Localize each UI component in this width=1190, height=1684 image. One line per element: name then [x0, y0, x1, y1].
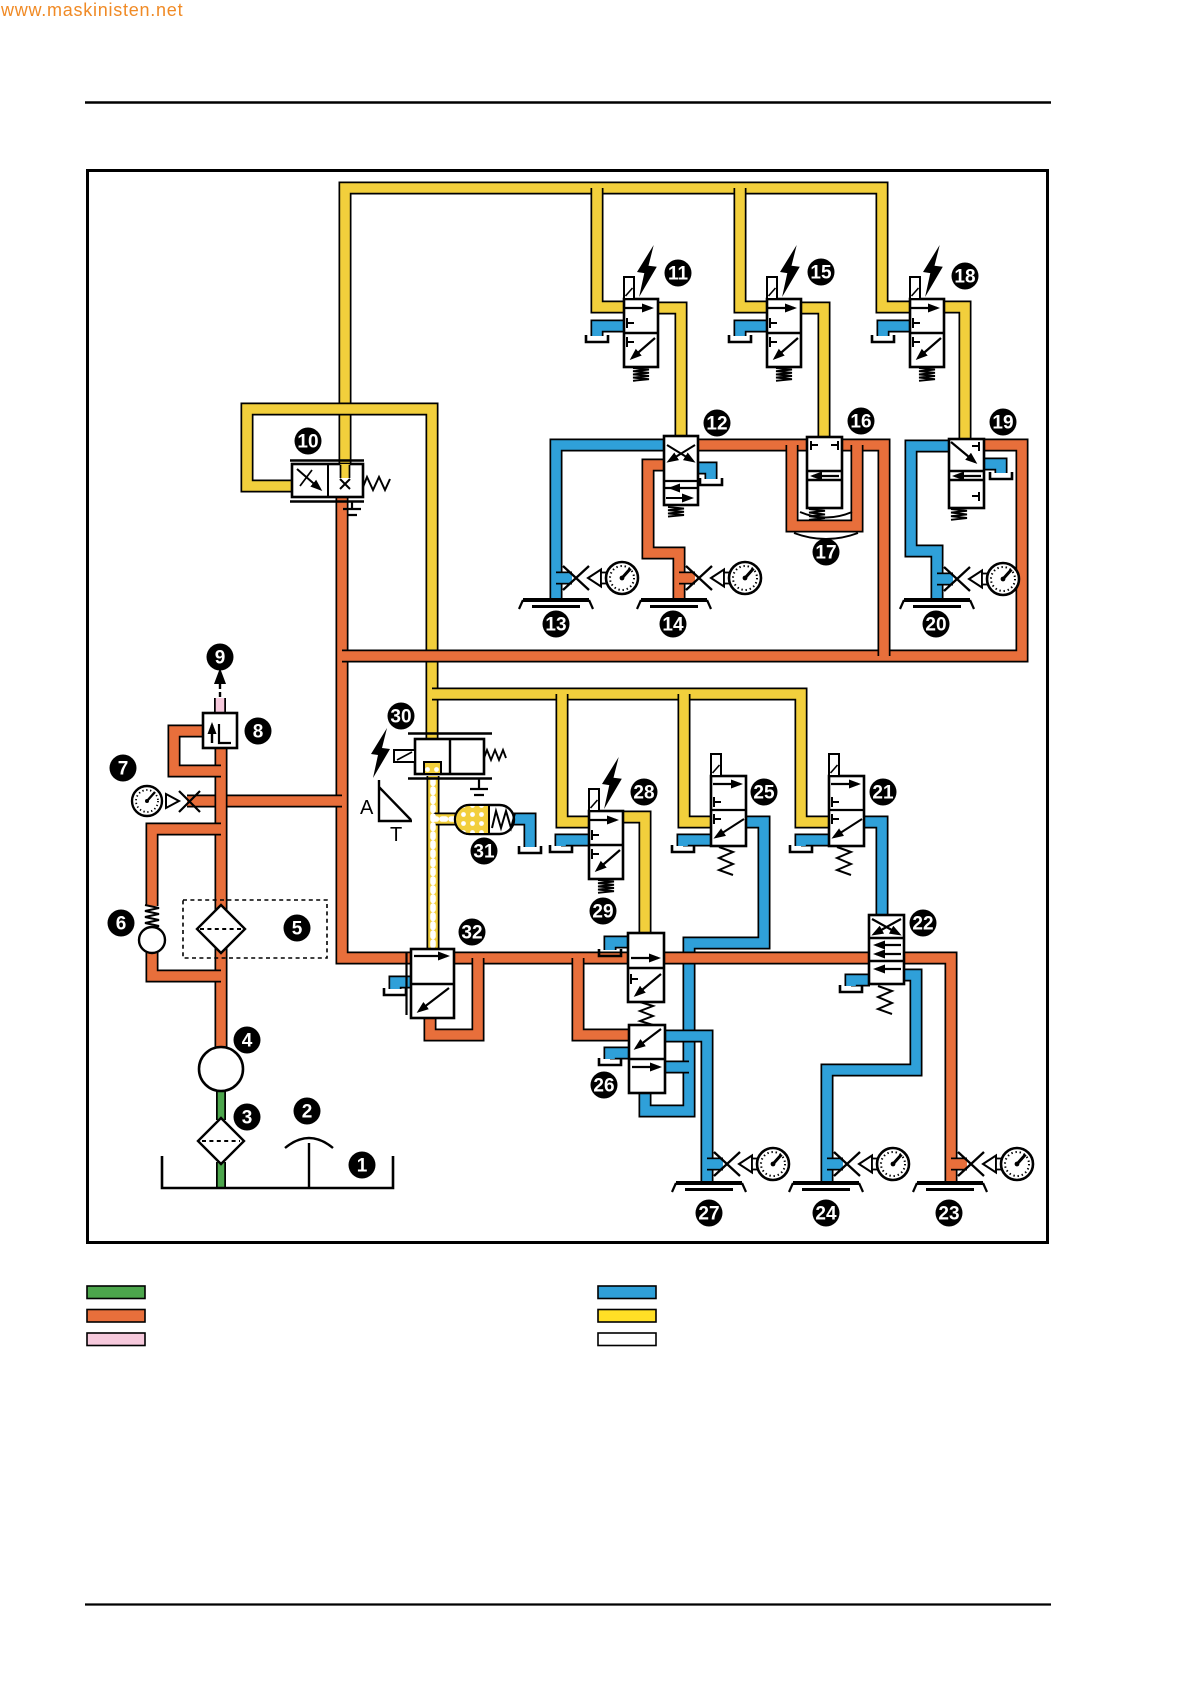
label circle 19: [990, 409, 1017, 436]
wire blue accumulator drain: [513, 819, 530, 847]
label circle 6: [108, 910, 135, 937]
valve 11 solenoid bolt: [637, 245, 657, 297]
svg-text:16: 16: [850, 412, 871, 433]
tank symbol tank 20: [900, 600, 974, 609]
svg-text:T: T: [390, 824, 402, 846]
wire orange lower bus to tank 23: [903, 958, 951, 1183]
label circle 20: [923, 611, 950, 638]
wire blue stub gauge 27: [707, 1158, 723, 1171]
valve 26 internals: [636, 1029, 661, 1048]
gauge 7 check triangle: [166, 794, 179, 808]
valve 30 spring: [484, 750, 506, 760]
valve body valve 21: [829, 776, 864, 846]
svg-text:18: 18: [954, 267, 975, 288]
pilot triangle A/T: [379, 780, 412, 821]
drain bracket valve26: [599, 1058, 621, 1065]
svg-text:19: 19: [992, 413, 1013, 434]
label circle 2: [294, 1098, 321, 1125]
drain bracket valve29: [599, 949, 621, 956]
valve body valve 30: [415, 739, 484, 774]
spring valve 16 spring: [809, 509, 825, 520]
svg-text:12: 12: [706, 414, 727, 435]
drain bracket valve15: [729, 335, 751, 342]
pilot line white dots overlay: [433, 780, 455, 950]
spring valve 12 spring: [668, 507, 684, 517]
valve body valve 18: [910, 299, 944, 367]
pilot box valve 18: [910, 277, 920, 299]
svg-text:1: 1: [357, 1156, 368, 1177]
wire blue drain valve 15: [740, 326, 768, 336]
wire blue drain valve 25: [683, 840, 712, 846]
pilot box valve 21: [829, 754, 839, 776]
label circle 26: [591, 1072, 618, 1099]
accumulator 31: [455, 805, 515, 834]
drain bracket valve12 right: [700, 478, 722, 485]
wire blue valve12 line to tank 13: [556, 445, 665, 600]
drain bracket valve32: [384, 988, 406, 995]
valve 28 internals: [589, 844, 623, 846]
pump 4: [199, 1047, 243, 1091]
wire blue drain valve 11: [597, 326, 625, 336]
valve 19 internals: [972, 442, 979, 451]
tank symbol tank 13: [519, 600, 593, 609]
wire orange stub gauge 23: [951, 1158, 967, 1171]
wire orange upper bus from valve12 + drop: [697, 445, 884, 656]
label circle 22: [910, 910, 937, 937]
valve body valve 12: [664, 436, 698, 505]
wire pink vent pipe: [214, 698, 226, 714]
svg-text:A: A: [360, 797, 374, 819]
valve 18 solenoid bolt: [923, 245, 943, 297]
pilot box valve 15: [767, 277, 777, 299]
wire blue valve25 out down to valve26 loop: [645, 822, 764, 1111]
valve body valve 10: [292, 464, 363, 497]
svg-text:13: 13: [545, 615, 566, 636]
wire blue stub valve26 lower right: [664, 1061, 689, 1074]
gauge gauge 24: [834, 1148, 909, 1180]
drain bracket accumulator: [519, 846, 541, 853]
svg-text:21: 21: [872, 783, 894, 804]
label circle 25: [751, 779, 778, 806]
tank symbol tank 24: [789, 1183, 863, 1192]
drain bracket valve22: [840, 985, 862, 992]
drain bracket valve19 right: [990, 472, 1012, 479]
label circle 16: [848, 408, 875, 435]
label circle 13: [543, 611, 570, 638]
valve 28 solenoid bolt: [602, 757, 622, 809]
spring valve 18 spring: [919, 368, 935, 381]
valve 11 internals: [624, 332, 658, 334]
wire blue drain valve 32: [395, 982, 412, 989]
svg-text:10: 10: [297, 432, 318, 453]
filter unit 5 dashed box: [183, 900, 327, 958]
valve 32 left rail: [405, 952, 407, 1015]
svg-text:11: 11: [668, 264, 689, 285]
tank 1 reservoir: [162, 1156, 393, 1188]
label circle 14: [660, 611, 687, 638]
gauge gauge 23: [958, 1148, 1033, 1180]
label circle 21: [870, 779, 897, 806]
valve 30 rails: [408, 734, 492, 779]
wire blue drain valve19 right: [983, 464, 1001, 473]
label circle 31: [471, 838, 498, 865]
spring valve 28 spring: [598, 880, 614, 893]
valve body valve 16: [807, 437, 842, 508]
label circle 3: [234, 1104, 261, 1131]
wire orange valve32 loop: [430, 958, 478, 1035]
label circle 1: [349, 1152, 376, 1179]
valve 10 yellow stub into right cell: [340, 464, 350, 478]
spring between 29 and 26: [640, 1002, 653, 1025]
svg-text:7: 7: [118, 759, 129, 780]
vent 9 arrow: [219, 681, 221, 697]
pilot box valve 28: [589, 789, 599, 811]
pilot box valve 11: [624, 277, 634, 299]
wire yellow drop to valve 11: [597, 188, 625, 307]
valve 30 solenoid bolt: [371, 728, 390, 778]
drain bracket valve25: [672, 845, 694, 852]
wire blue stub gauge 13: [556, 572, 572, 585]
svg-text:26: 26: [593, 1076, 614, 1097]
svg-text:24: 24: [815, 1204, 837, 1225]
label circle 4: [234, 1027, 261, 1054]
wire blue valve19 line to tank 20: [911, 446, 950, 600]
valve 16 internals: [811, 441, 838, 450]
valve 10 rails: [290, 461, 364, 502]
svg-text:3: 3: [242, 1108, 253, 1129]
wire orange ring horizontal + right riser to valve19: [342, 445, 1022, 656]
wire yellow drop to valve 28: [562, 694, 590, 822]
suction filter 3: [198, 1118, 244, 1164]
wire blue valve22 out to tank 24: [827, 975, 916, 1183]
wire yellow branch down to valve 30: [345, 409, 432, 740]
valve 18 internals: [910, 332, 944, 334]
label circle 7: [110, 755, 137, 782]
valve body valve 19: [949, 439, 984, 508]
svg-text:32: 32: [461, 923, 482, 944]
wire blue stub gauge 20: [937, 573, 953, 586]
svg-text:8: 8: [253, 722, 264, 743]
valve 10 internals: [327, 464, 329, 497]
valve 8 internals: [219, 724, 231, 743]
svg-text:5: 5: [292, 919, 303, 940]
breather 2: [308, 1143, 310, 1187]
svg-text:23: 23: [938, 1204, 959, 1225]
wire orange branch to relief 6: [152, 829, 221, 906]
valve 10 drain: [343, 501, 361, 515]
relief valve 6 ball: [139, 927, 165, 953]
valve body valve 22: [869, 915, 904, 984]
label circle 29: [590, 898, 617, 925]
valve 29 internals: [631, 957, 658, 959]
drain bracket valve21: [790, 845, 812, 852]
valve body valve 15: [767, 299, 801, 367]
valve body valve 26: [629, 1025, 665, 1093]
valve 10 spring: [363, 477, 390, 490]
legend blue bar: [598, 1286, 656, 1299]
wire yellow valve11 out to valve12: [657, 308, 681, 437]
valve 15 internals: [767, 332, 801, 334]
tank symbol tank 27: [672, 1183, 746, 1192]
label circle 5: [284, 915, 311, 942]
valve body valve 11: [624, 299, 658, 367]
label circle 18: [952, 263, 979, 290]
label circle 10: [295, 428, 322, 455]
svg-text:29: 29: [592, 902, 613, 923]
valve 30 drain: [470, 778, 488, 795]
wire orange box8 bypass loop: [174, 731, 221, 771]
wire yellow supply: main vertical + top bus + valve18 feed: [345, 188, 911, 480]
svg-text:25: 25: [753, 783, 775, 804]
label circle 11: [665, 260, 692, 287]
wire yellow drop to valve 15: [740, 188, 768, 307]
drain bracket valve11: [586, 335, 608, 342]
wire yellow drop to valve 25: [684, 694, 712, 822]
drain bracket valve28: [550, 845, 572, 852]
label circle 24: [813, 1200, 840, 1227]
valve body valve 28: [589, 811, 623, 879]
svg-text:9: 9: [215, 648, 226, 669]
wire blue drain valve 21: [801, 840, 830, 846]
wire orange branch to valve 26: [578, 958, 630, 1035]
tank symbol tank 23: [913, 1183, 987, 1192]
valve 12 internals: [664, 480, 698, 482]
label circle 30: [388, 703, 415, 730]
gauge gauge 14: [686, 562, 761, 594]
wire orange valve12 left to tank 14: [648, 465, 679, 600]
wire blue drain valve 18: [883, 326, 911, 336]
label circle 15: [808, 259, 835, 286]
wire orange stub gauge 14: [679, 572, 695, 585]
valve 16 arcs (17): [800, 512, 852, 518]
spring relief 6: [145, 905, 159, 929]
svg-text:14: 14: [662, 615, 684, 636]
valve body vent valve 8: [203, 713, 237, 748]
spring valve 11 spring: [633, 368, 649, 381]
valve 21 internals: [831, 783, 858, 785]
valve body valve 25: [711, 776, 746, 846]
svg-text:15: 15: [810, 263, 832, 284]
gauge gauge 20: [944, 563, 1019, 595]
schematic frame: [88, 171, 1048, 1243]
spring valve 25 spring: [719, 847, 733, 875]
wire green pump suction upper: [216, 1090, 226, 1120]
gauge gauge 27: [714, 1148, 789, 1180]
drain bracket valve18: [872, 335, 894, 342]
wire yellow valve15 out to valve16: [800, 308, 824, 438]
wire blue drain valve 29: [610, 942, 629, 950]
valve 32 internals: [414, 955, 447, 957]
svg-text:22: 22: [912, 914, 933, 935]
svg-text:www.maskinisten.net: www.maskinisten.net: [0, 0, 183, 20]
spring valve 22 spring: [878, 986, 892, 1014]
label circle 23: [936, 1200, 963, 1227]
valve body valve 29: [628, 933, 664, 1002]
svg-text:6: 6: [116, 914, 127, 935]
top rule: [85, 101, 1051, 103]
wire orange relief 6 return: [152, 952, 221, 976]
svg-text:31: 31: [473, 842, 495, 863]
wire blue valve26 out to tank 27: [664, 1036, 707, 1183]
bottom rule: [85, 1603, 1051, 1605]
wire blue drain valve12 right: [697, 468, 711, 479]
label circle 27: [696, 1200, 723, 1227]
legend pink bar: [87, 1333, 145, 1346]
tank symbol tank 14: [637, 600, 711, 609]
wire yellow loop to valve10 left: [247, 409, 345, 486]
wire green pump suction lower: [216, 1162, 226, 1187]
wire yellow pilot dotted vertical: [427, 776, 440, 950]
spring valve 21 spring: [837, 847, 851, 875]
legend yellow bar: [598, 1310, 656, 1323]
pilot box valve 25: [711, 754, 721, 776]
gauge 7 dial: [132, 786, 162, 816]
svg-text:30: 30: [390, 707, 411, 728]
valve body valve 32: [411, 949, 454, 1018]
wire blue stub gauge 24: [827, 1158, 843, 1171]
svg-text:28: 28: [633, 783, 654, 804]
svg-text:17: 17: [815, 543, 836, 564]
wire blue valve21 out to valve22: [863, 822, 882, 916]
svg-text:4: 4: [242, 1031, 253, 1052]
wire yellow pilot dotted to accumulator: [433, 813, 457, 826]
legend green bar: [87, 1286, 145, 1299]
label circle 32: [459, 919, 486, 946]
wire yellow second bus + valve21 feed: [432, 694, 830, 822]
svg-text:27: 27: [698, 1204, 719, 1225]
wire orange main vertical + lower bus: [342, 496, 870, 958]
wire yellow valve28 out to valve29: [624, 817, 645, 934]
label circle 9: [207, 644, 234, 671]
wire yellow valve18 out to valve19: [943, 307, 965, 440]
valve 30 pilot: [394, 750, 415, 762]
wire orange gauge7 line: [187, 795, 342, 808]
wire orange box8 down to pump: [215, 747, 228, 1048]
gauge gauge 13: [563, 562, 638, 594]
valve 30 internals: [449, 739, 451, 774]
label circle 12: [704, 410, 731, 437]
legend white bar: [598, 1333, 656, 1346]
gauge 7 throttle X: [179, 791, 200, 812]
wire blue drain valve 28: [561, 840, 590, 846]
legend orange bar: [87, 1310, 145, 1323]
spring valve 15 spring: [776, 368, 792, 381]
valve 15 solenoid bolt: [780, 245, 800, 297]
wire orange valve16 loop: [792, 445, 857, 526]
svg-text:20: 20: [925, 615, 946, 636]
label circle 28: [631, 779, 658, 806]
valve 25 internals: [713, 783, 740, 785]
wire blue drain valve 26: [610, 1053, 630, 1059]
spring valve 19 spring: [951, 509, 967, 520]
filter 5 diamond: [197, 905, 245, 953]
svg-text:2: 2: [302, 1102, 313, 1123]
valve 22 internals: [869, 937, 904, 939]
wire blue drain valve 22: [851, 980, 870, 986]
label circle 17: [813, 539, 840, 566]
label circle 8: [245, 718, 272, 745]
